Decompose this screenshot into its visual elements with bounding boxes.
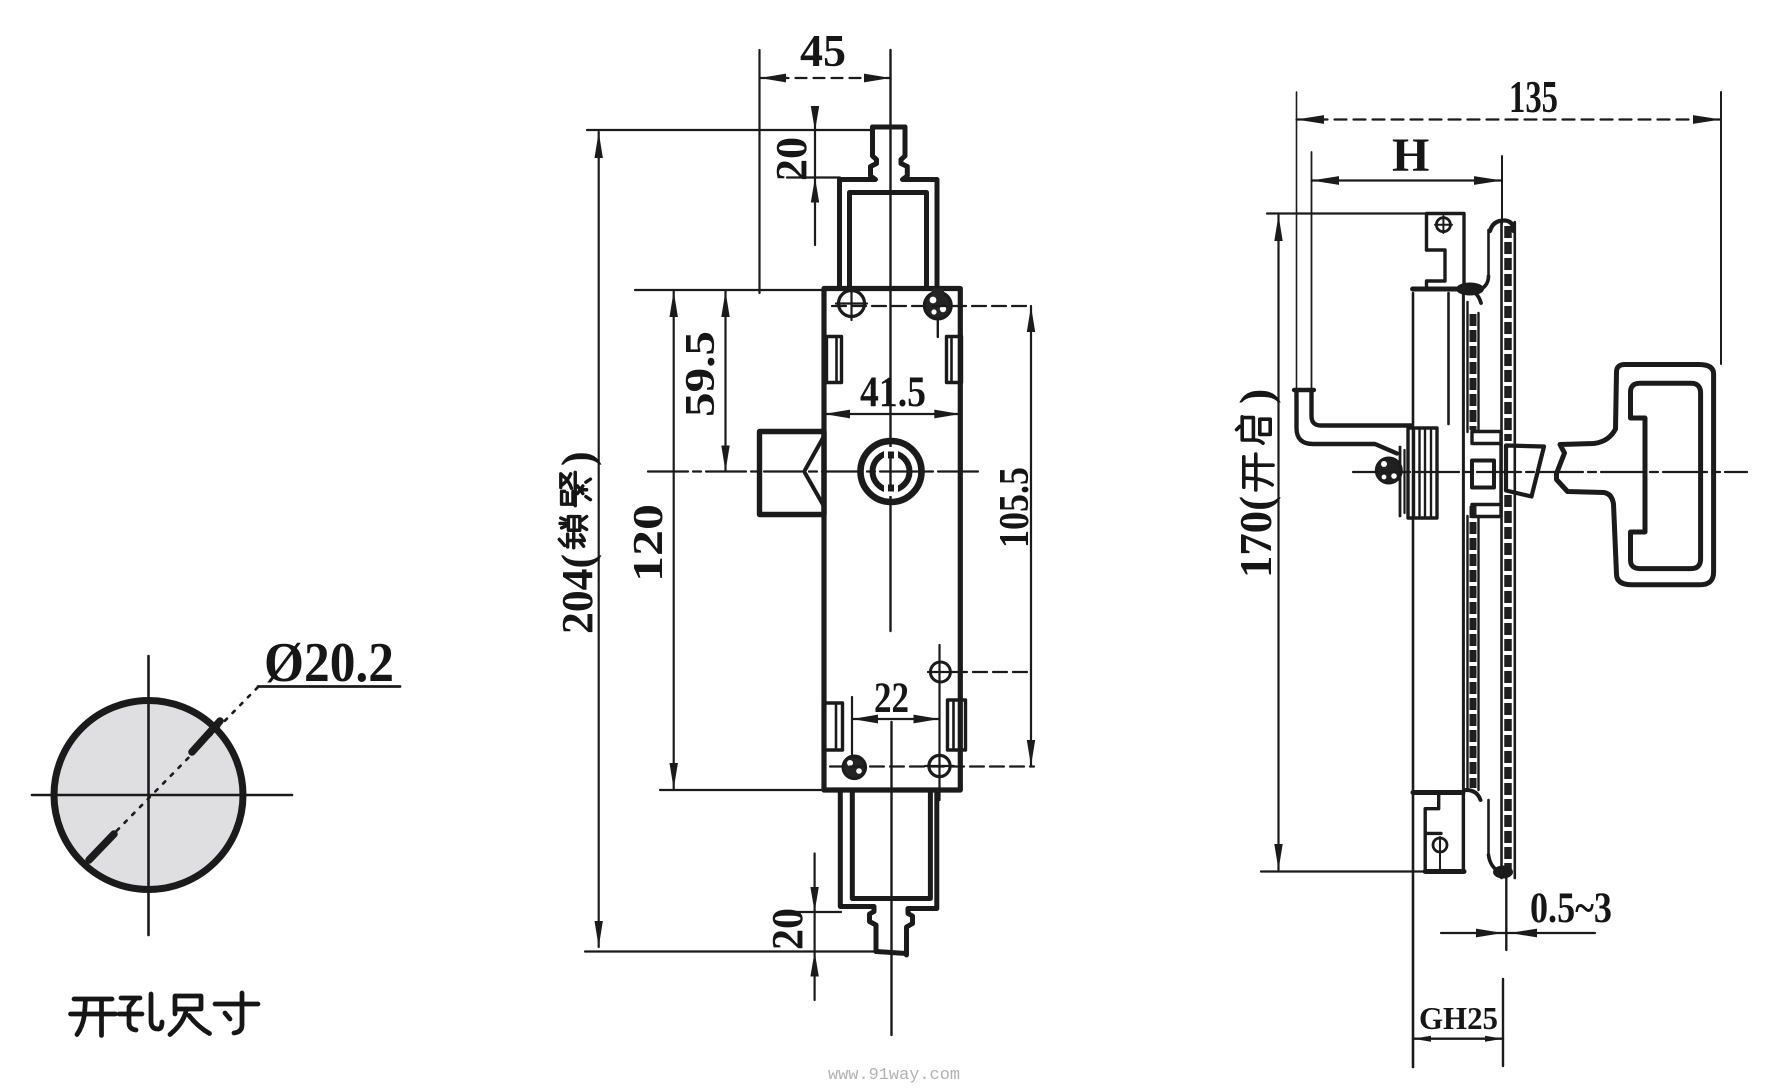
dim 22 right extension through screws [938,645,940,800]
svg-text:GH25: GH25 [1419,1000,1498,1036]
dim 59.5 arrows [721,291,729,317]
svg-text:20: 20 [763,908,812,950]
top bracket outline [1427,214,1465,288]
hanzi caption: kai kong chi cun [71,993,259,1036]
hole circle (gray filled) [54,701,243,890]
dim 135 line (dashed) [1297,118,1722,120]
lower-left screw (dark) [843,756,866,779]
dim 20 top lower extension [787,176,840,178]
dim 120 arrows [670,291,678,317]
key bow inner hole [1631,383,1701,568]
dim 105.5 line [1030,306,1032,766]
dim 135 arrows [1297,115,1325,124]
side view centerline [1353,471,1747,473]
cam piece [1472,432,1501,517]
svg-text:41.5: 41.5 [860,369,926,416]
lock body rectangle [824,289,960,791]
dim 204 label (rotated) with hanzi [553,451,602,634]
svg-text:): ) [1230,389,1281,404]
dim 41.5 arrows [824,410,850,419]
svg-text:): ) [553,451,602,466]
washer edge line [1399,447,1402,516]
svg-text:20: 20 [767,137,816,181]
svg-text:204(: 204( [553,554,602,634]
dim 170 top extension [1267,212,1462,214]
small middle screw [930,662,950,682]
dim 59.5 line [724,291,726,472]
dim H line [1312,179,1503,181]
hanzi suo3 [559,517,586,548]
dim H extension right [1501,156,1503,224]
latch chevron [805,437,824,470]
dim 22 arrows [852,715,878,724]
dim 0.5~3 arrows [1476,929,1503,938]
dim H arrows [1312,176,1340,185]
dim 170 label (rotated) with hanzi [1230,389,1281,578]
door panel strip (hatched) [1500,222,1503,878]
top bolt head outline [873,125,906,130]
svg-text:170(: 170( [1230,496,1281,578]
dim H extension left [1311,152,1313,389]
dashed line through lower screws [830,765,1034,767]
leader underline [258,685,400,688]
svg-text:www.91way.com: www.91way.com [828,1066,960,1085]
top bolt inner channel [850,193,927,289]
diameter arrow stroke upper [192,721,220,752]
dim 22 line [852,718,940,720]
svg-text:105.5: 105.5 [992,467,1038,548]
svg-text:45: 45 [800,25,846,76]
crank rod and arm inner edge [1312,390,1412,426]
dim 170 bottom extension [1261,870,1425,872]
top bracket bottom bar [1413,287,1464,292]
dim 20 top arrows [811,106,819,131]
dashed line through upper screws [832,305,1031,307]
dim 41.5 line across body [824,413,960,415]
dim 0.5~3 line [1441,932,1595,934]
spindle wedge [1506,446,1544,497]
horizontal dash-dot centerline through keyhole [648,470,981,472]
mounting plate left edge [1412,293,1415,1067]
svg-text:135: 135 [1509,72,1558,122]
dim 45 arrows [760,74,787,83]
upper-left side tab [827,337,842,383]
svg-text:22: 22 [874,675,909,722]
dim 204 top extension [587,129,873,131]
dashed line from small screw to 105.5 [953,671,1031,673]
dim 20 bottom arrows [810,887,818,912]
top bracket screw [1436,218,1450,232]
dim 45 line (dashed) [760,77,891,79]
GH25 dim line [1413,1037,1503,1039]
horizontal centerline of hole [32,794,292,797]
svg-text:120: 120 [626,504,672,582]
knurled boss block [1408,428,1437,518]
dim 20 bottom extension [785,911,841,913]
bottom bracket screw [1433,838,1447,852]
top bracket notch [1427,250,1446,287]
hanzi qi3 [1237,417,1271,443]
latch protrusion (left) [760,432,825,515]
bottom bolt channel outer right [907,790,937,955]
diameter arrow stroke lower [89,834,114,860]
keyhole inner profile [873,453,910,490]
dim 204 line [598,132,600,947]
crank rod and arm outer edge [1297,390,1398,454]
keyhole outer circle [861,441,922,502]
dim 135 left extension [1296,92,1298,389]
crank rod top cap [1294,388,1314,392]
bottom bracket outline [1425,793,1439,872]
dim 120 bottom extension [660,789,824,791]
dim 170 arrows [1274,215,1282,241]
plate right edge [1462,287,1465,872]
dim 20 top : line [814,107,816,245]
svg-text:59.5: 59.5 [678,331,724,417]
lower-right side tab [948,700,966,750]
lower-left side tab [825,703,843,750]
corner weld blob [1456,283,1484,296]
transition Z to door [1467,288,1481,303]
svg-text:Ø20.2: Ø20.2 [264,632,394,694]
main vertical centerline (upper) [889,50,891,631]
pivot screw (dark) [1376,458,1401,483]
hatched strip A (rear channel) [1466,302,1468,432]
dim 204 arrows [595,132,603,158]
dim 135 right extension [1720,92,1722,364]
dim 45 extension line (latch left edge) [758,50,760,293]
dim 204 bottom extension [585,950,878,952]
upper-left screw [839,291,865,317]
dim 170 line [1277,215,1279,870]
diameter leader dotted diagonal [86,685,260,862]
bottom bolt inner channel [852,790,930,899]
svg-text:H: H [1392,129,1429,182]
dim 120 top extension (shared with 59.5) [635,289,824,291]
main vertical centerline (lower) [890,722,892,1035]
svg-text:0.5~3: 0.5~3 [1530,885,1612,932]
dim 0.5~3 lower vertical [1502,979,1504,1066]
dim 120 line [673,291,675,789]
hanzi jin3 [561,472,591,505]
bottom clip [1466,790,1481,800]
dim 105.5 arrows [1027,306,1035,332]
bottom bolt tip bottom edge [876,952,907,954]
key stem and bow outer [1557,365,1714,585]
upper-right side tab [947,337,962,383]
plate inner line [1447,293,1450,424]
top clip strip [1487,230,1490,276]
bottom bracket top bar [1413,790,1463,795]
dim 0.5~3 left vertical [1505,874,1507,950]
dim 22 left extension [851,697,853,754]
lower-right screw [929,755,950,776]
bottom bolt channel outer left [840,790,876,952]
dim 20 bottom : line [813,854,815,1001]
upper-right screw (dark) [924,292,951,319]
vertical centerline of hole [147,656,150,935]
hanzi kai1 [1244,454,1273,490]
